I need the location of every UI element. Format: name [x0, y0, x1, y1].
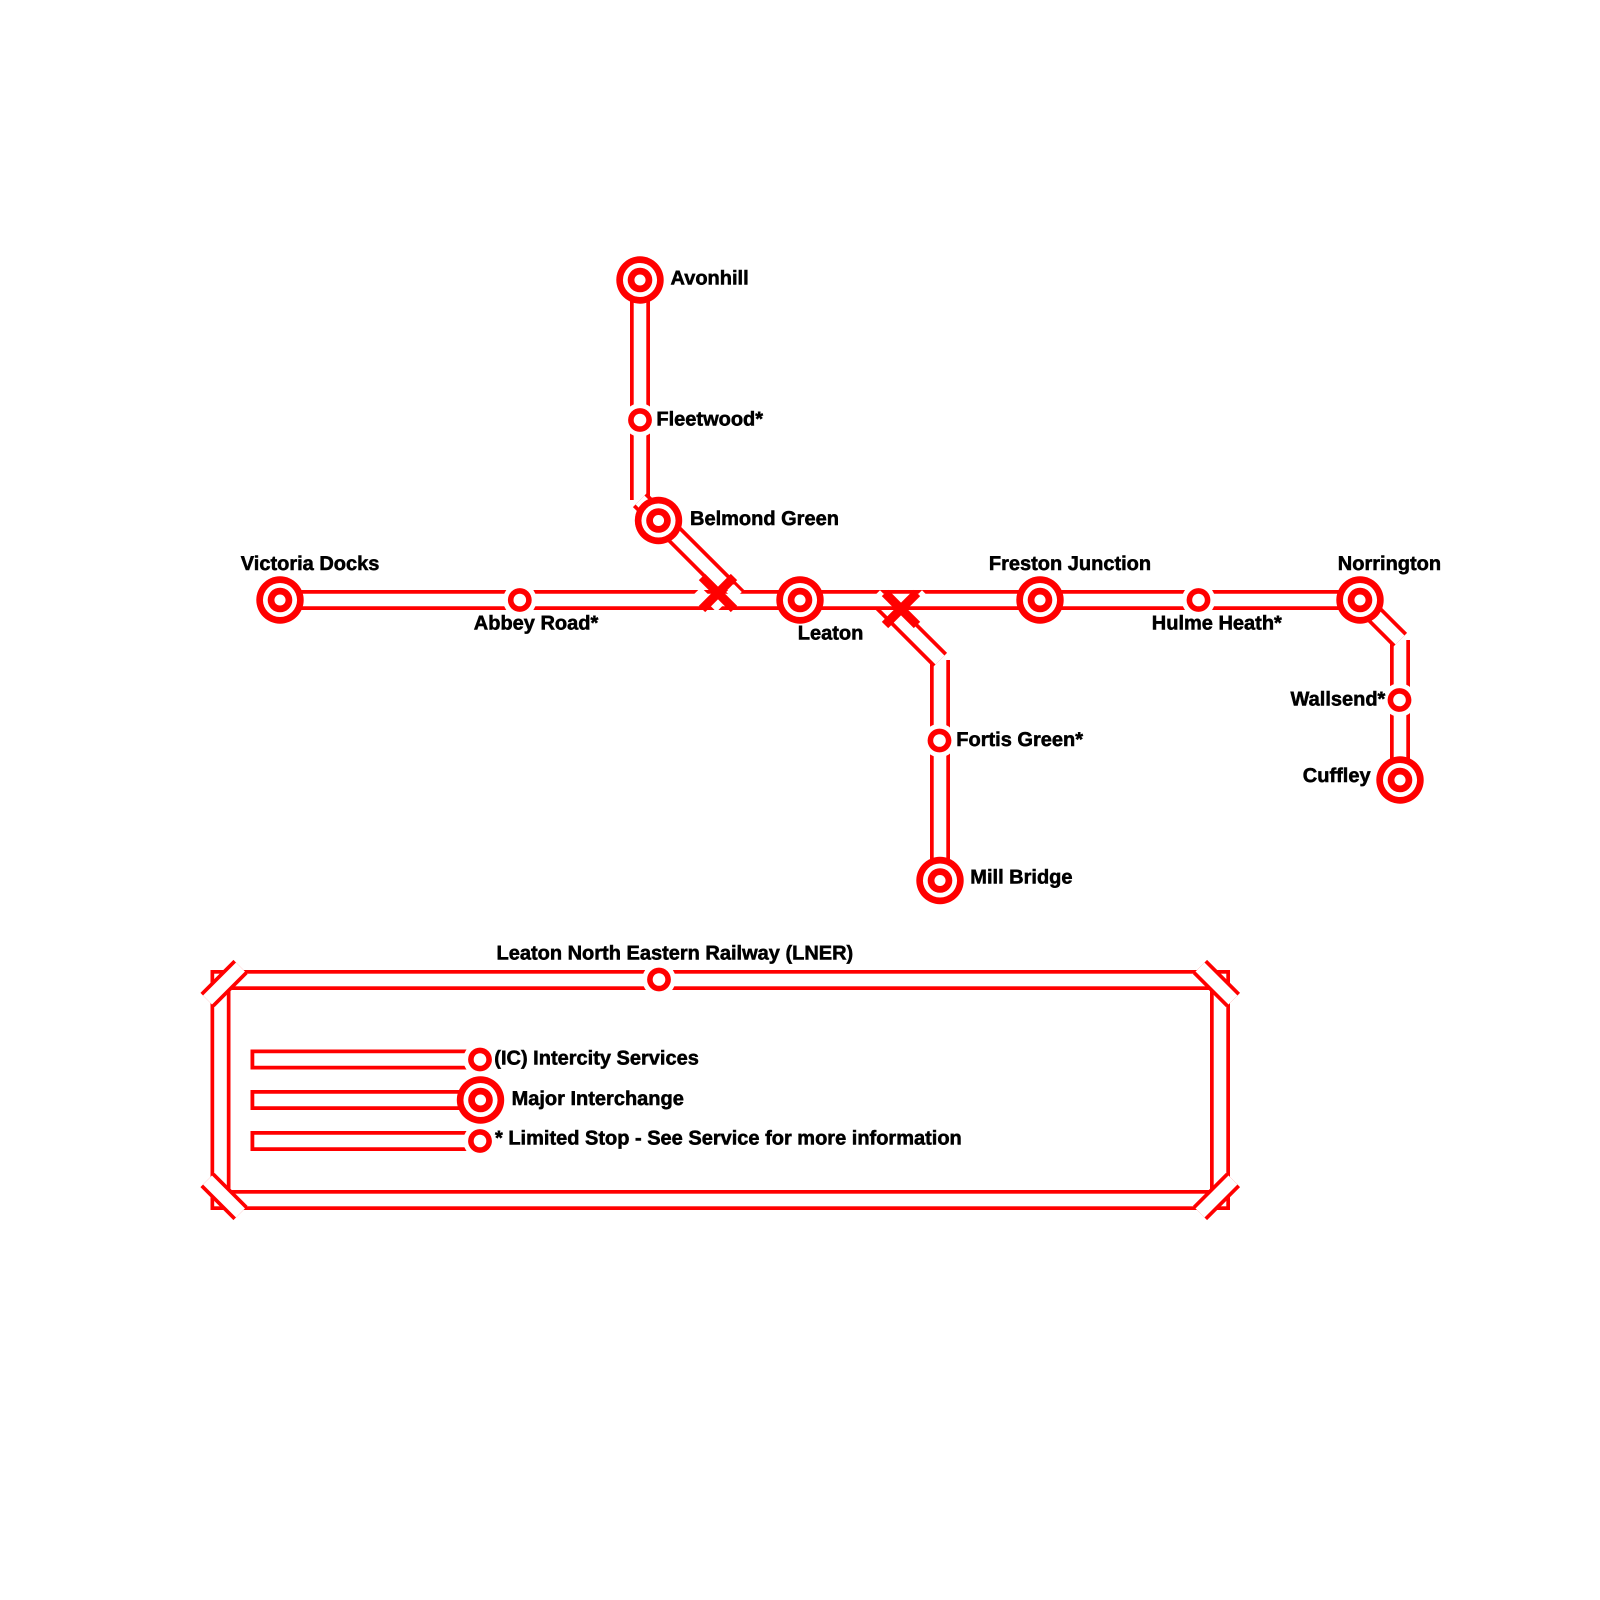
station Wallsend (small): [1383, 683, 1417, 717]
svg-text:Norrington: Norrington: [1338, 553, 1441, 575]
station Fortis Green (small): [923, 724, 957, 758]
legend row 1 station symbol (IC): [463, 1043, 497, 1077]
junction crossover X east of Leaton: [872, 590, 930, 625]
svg-text:Fleetwood*: Fleetwood*: [656, 409, 763, 431]
legend row 2 interchange symbol: [457, 1076, 504, 1123]
svg-text:Mill Bridge: Mill Bridge: [970, 867, 1072, 889]
track: Norrington to Cuffley vertical segment: [1390, 640, 1410, 780]
station Victoria Docks (interchange): [256, 576, 303, 623]
legend corner slash top-right: [1200, 967, 1233, 1000]
svg-text:Wallsend*: Wallsend*: [1291, 689, 1386, 711]
svg-text:Victoria Docks: Victoria Docks: [241, 553, 380, 575]
svg-text:Major Interchange: Major Interchange: [512, 1088, 684, 1110]
track: Norrington to Cuffley diagonal segment: [1360, 600, 1400, 640]
svg-text:Abbey Road*: Abbey Road*: [474, 612, 599, 634]
station Hulme Heath (small): [1182, 583, 1216, 617]
svg-text:(IC) Intercity Services: (IC) Intercity Services: [494, 1048, 699, 1070]
svg-text:Belmond Green: Belmond Green: [690, 508, 839, 530]
station Freston Junction (interchange): [1016, 576, 1063, 623]
legend corner slash bottom-left: [208, 1180, 241, 1213]
junction crossover X west of Leaton: [693, 577, 742, 612]
legend box border: [221, 980, 1221, 1200]
track: main line Victoria Docks to Norrington: [280, 590, 1360, 610]
station Abbey Road (small): [503, 583, 537, 617]
track: Mill Bridge branch diagonal segment: [880, 600, 940, 660]
station Cuffley (interchange): [1376, 756, 1423, 803]
svg-text:Leaton: Leaton: [798, 623, 864, 645]
legend top border station marker: [642, 963, 676, 997]
svg-text:Fortis Green*: Fortis Green*: [956, 729, 1083, 751]
track: Mill Bridge branch vertical segment: [930, 660, 950, 881]
legend row 3 sample track: [251, 1131, 481, 1151]
legend row 1 sample track: [251, 1050, 481, 1070]
station Avonhill (interchange): [616, 256, 663, 303]
legend corner slash bottom-right: [1200, 1180, 1233, 1213]
svg-text:Leaton North Eastern Railway (: Leaton North Eastern Railway (LNER): [497, 943, 854, 965]
legend corner slash top-left: [208, 967, 241, 1000]
station Mill Bridge (interchange): [916, 857, 963, 904]
svg-text:Freston Junction: Freston Junction: [989, 553, 1151, 575]
svg-text:Avonhill: Avonhill: [671, 268, 749, 290]
track: Avonhill branch vertical segment: [630, 280, 650, 500]
track: Belmond Green diagonal segment to main line junction: [640, 500, 740, 600]
station Belmond Green (interchange): [635, 497, 682, 544]
legend row 2 sample track: [251, 1090, 481, 1110]
svg-text:Cuffley: Cuffley: [1303, 765, 1372, 787]
station Leaton (interchange): [776, 576, 823, 623]
station Norrington (interchange): [1336, 576, 1383, 623]
svg-text:Hulme Heath*: Hulme Heath*: [1152, 613, 1282, 635]
legend row 3 station symbol (limited stop): [463, 1124, 497, 1158]
svg-text:* Limited Stop - See Service f: * Limited Stop - See Service for more in…: [495, 1128, 962, 1150]
station Fleetwood (small): [623, 403, 657, 437]
